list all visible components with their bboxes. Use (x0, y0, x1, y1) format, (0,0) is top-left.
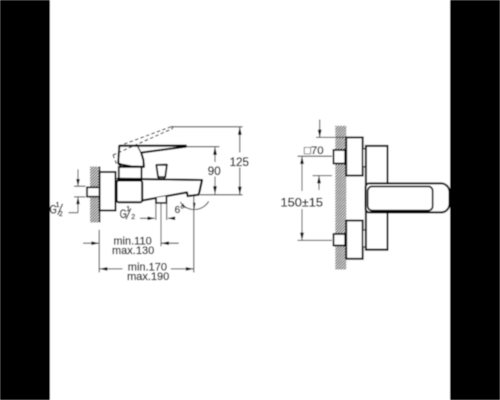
wall face line (99, 167, 101, 223)
diverter knob (156, 165, 167, 178)
upper connector (363, 149, 366, 167)
dashed lever raised (113, 126, 173, 166)
min170/max190 dimension (99, 268, 193, 270)
spout end face (200, 180, 203, 192)
vertical axis line at spout outlet (193, 197, 195, 273)
ref line bottom (200, 194, 243, 196)
dim 150+-15 (298, 156, 333, 240)
handle front inner (368, 186, 433, 210)
handle base and lever blade (118, 146, 186, 167)
body column (366, 146, 388, 250)
arrowheads 125 (238, 127, 242, 135)
ext line top (raised lever) (171, 126, 243, 128)
wall hatch right view (335, 126, 346, 270)
ext line blade tip (186, 146, 219, 148)
dim 125 line (239, 127, 241, 153)
lower inlet nipple (334, 234, 346, 246)
text G1/2 left (50, 202, 63, 218)
dim 90 line (214, 147, 216, 162)
aerator foot (187, 192, 199, 197)
svg-text:150±15: 150±15 (281, 195, 324, 209)
handle crease line (138, 146, 141, 152)
upper inlet nipple (334, 150, 346, 164)
inlet nipple G1/2 (87, 187, 100, 196)
right black bar (450, 0, 500, 400)
lower connector (363, 230, 366, 247)
center G1/2 dimension (shower outlet) (140, 204, 175, 221)
dim square70 (313, 120, 347, 191)
svg-text:□70: □70 (304, 145, 324, 157)
shower outlet G1/2 (156, 196, 166, 203)
svg-text:2: 2 (59, 211, 63, 218)
escutcheon (100, 172, 116, 211)
check valve housing (117, 181, 143, 203)
svg-text:2: 2 (131, 214, 135, 221)
svg-text:6°: 6° (175, 205, 185, 216)
cartridge block (119, 167, 142, 179)
spout outline (142, 180, 202, 201)
min110/max130 dimension (83, 204, 179, 273)
handle front outer (366, 183, 450, 212)
spout body top edge (117, 179, 202, 180)
upper flange (346, 137, 363, 175)
svg-text:1: 1 (56, 202, 60, 209)
svg-text:max.190: max.190 (127, 271, 169, 283)
text G1/2 center (120, 206, 136, 221)
svg-text:90: 90 (208, 165, 221, 178)
lower flange (346, 221, 363, 259)
6 degree annotation (180, 197, 208, 273)
svg-text:max.130: max.130 (112, 245, 154, 257)
left black bar (0, 0, 50, 400)
wall hatch (90, 167, 100, 223)
arrowheads 90 (213, 147, 217, 155)
svg-text:125: 125 (230, 156, 249, 169)
left G1/2 dimension (69, 169, 86, 212)
